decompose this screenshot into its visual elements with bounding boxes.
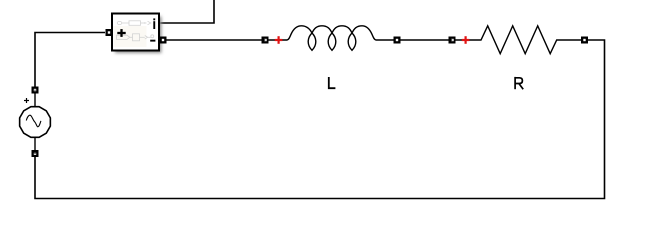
current sensor plus symbol bbox=[117, 29, 125, 37]
inductor L coil bbox=[269, 26, 397, 51]
resistor + polarity marker (red) bbox=[462, 36, 470, 44]
current sensor left port bbox=[106, 29, 113, 36]
inductor label L bbox=[329, 77, 336, 88]
inductor + polarity marker (red) bbox=[275, 36, 283, 44]
AC voltage source V1 body bbox=[20, 107, 51, 138]
resistor left port bbox=[449, 37, 456, 44]
current sensor U1 drop shadow bbox=[115, 17, 162, 54]
current sensor minus symbol bbox=[150, 40, 155, 42]
resistor label R bbox=[515, 77, 524, 89]
AC source + label bbox=[24, 98, 29, 103]
current sensor i label bbox=[153, 18, 155, 29]
short wire source bottom terminal bbox=[34, 137, 36, 152]
wire from current sensor i output right then up to top edge bbox=[159, 0, 214, 23]
AC source bottom port bbox=[32, 150, 39, 157]
resistor R zigzag bbox=[456, 26, 586, 54]
AC source sine wave bbox=[26, 115, 41, 127]
wire from voltage source + terminal up and right to current sensor left port bbox=[35, 33, 105, 94]
resistor right port bbox=[581, 37, 588, 44]
inductor left port bbox=[262, 37, 269, 44]
current sensor right port bbox=[160, 37, 167, 44]
wire from inductor right port to resistor left port bbox=[400, 39, 449, 41]
short wire source top terminal bbox=[34, 93, 36, 107]
AC source top port bbox=[32, 87, 39, 94]
inductor right port bbox=[394, 37, 401, 44]
wire from resistor right port down right side, along bottom, up to source - terminal bbox=[35, 40, 605, 199]
current sensor U1 body bbox=[112, 14, 159, 51]
current sensor internal icon (light gray mini-schematic) bbox=[117, 21, 154, 41]
wire from current sensor - port to inductor left port bbox=[166, 39, 262, 41]
